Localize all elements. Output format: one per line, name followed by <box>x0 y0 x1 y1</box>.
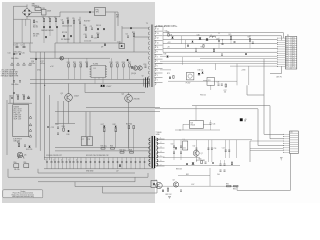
resistor R23 <box>86 64 88 67</box>
bottom caps row A <box>46 161 48 163</box>
wire verticals below bridge <box>21 19 23 43</box>
resistor R24 <box>111 64 113 67</box>
wire vertical x115 <box>114 12 116 41</box>
resistor R30 <box>17 96 19 99</box>
resistor R40 <box>63 128 65 131</box>
svg-text:R86: R86 <box>233 189 236 191</box>
wire 3.3V y66.1 <box>230 65 278 67</box>
capacitor C14 left <box>13 53 15 55</box>
capacitor C20 <box>11 97 13 99</box>
wire drops mid-lower <box>103 131 105 148</box>
wire stby row y81 <box>168 80 237 82</box>
resistor R9 <box>85 27 87 30</box>
svg-text:F1 5A: F1 5A <box>35 5 41 8</box>
svg-text:+5V +12V OUTPUT: +5V +12V OUTPUT <box>1 69 16 71</box>
svg-text:R9: R9 <box>84 25 86 27</box>
ground sym P2 <box>280 158 283 160</box>
thermistor circle TH2 <box>60 56 64 60</box>
wire y103 left <box>10 102 29 104</box>
TL431 box U3 <box>207 78 215 86</box>
svg-text:D3 D4: D3 D4 <box>96 25 101 27</box>
wires into P2 <box>250 140 284 142</box>
base drive caps C9 <box>57 126 59 128</box>
svg-text:R45 deg: R45 deg <box>101 146 107 148</box>
svg-text:R11: R11 <box>132 32 135 34</box>
svg-text:R31: R31 <box>22 94 25 96</box>
wire h-rail y107 <box>86 107 160 109</box>
svg-text:1n 1n 220: 1n 1n 220 <box>84 40 91 42</box>
junction dot IC3 <box>179 129 180 130</box>
svg-text:C2: C2 <box>21 45 23 47</box>
warning triangle E2 <box>17 63 20 65</box>
supervisor IC U2 LM339 block <box>13 105 29 137</box>
resistor R46 <box>111 148 115 150</box>
resistor R51 <box>24 164 29 168</box>
svg-text:D9: D9 <box>101 47 103 49</box>
resistor R50 <box>14 164 19 168</box>
opto coupler PC1 box <box>186 72 194 80</box>
inductor box L3 <box>183 141 188 150</box>
resistor R27 <box>129 64 131 67</box>
svg-text:LOW ESR 1200uF 16V: LOW ESR 1200uF 16V <box>1 72 19 74</box>
wire TL494 verticals <box>68 58 70 64</box>
resistor R3 <box>55 19 57 22</box>
diode D11 <box>130 27 132 29</box>
wire secondary bus y35.8 <box>163 36 282 41</box>
warning triangle A <box>29 116 32 118</box>
wire rail y79 <box>30 78 150 80</box>
wire 5VSB y63.5 <box>155 63 278 65</box>
wire rail x40 <box>39 52 41 151</box>
capacitor C11 <box>91 35 93 37</box>
wire PW-OK y58.7 <box>200 58 278 60</box>
svg-text:C6: C6 <box>126 33 128 35</box>
svg-text:1N4148 1N4148: 1N4148 1N4148 <box>41 30 53 32</box>
svg-text:T2: T2 <box>142 76 144 78</box>
svg-text:R4 1M: R4 1M <box>33 27 38 29</box>
wire y186.2 long <box>155 185 237 187</box>
rectifier diode D32 dark <box>206 39 208 41</box>
transistor Q7 <box>193 150 199 156</box>
wire AC left rail <box>13 6 15 104</box>
svg-text:Q2: Q2 <box>122 94 124 96</box>
svg-text:D16: D16 <box>67 134 70 136</box>
svg-text:C1: C1 <box>14 45 16 47</box>
wire doubler <box>16 43 18 47</box>
svg-text:C46: C46 <box>217 81 220 83</box>
svg-text:R85: R85 <box>226 183 229 185</box>
wire IC3 input from top <box>195 106 197 121</box>
wire secondary bus y32.7 <box>163 33 284 38</box>
svg-text:R16 R17: R16 R17 <box>84 21 90 23</box>
svg-text:R22: R22 <box>79 62 82 64</box>
svg-text:C8 1n: C8 1n <box>33 36 38 38</box>
wire rail y58 <box>30 57 110 59</box>
svg-text:470u: 470u <box>41 63 45 65</box>
svg-text:2SC945: 2SC945 <box>134 99 140 101</box>
diode at rail x36 top <box>35 58 37 60</box>
wire stub U3 <box>210 85 212 90</box>
snubber at T1 bottom <box>151 181 157 188</box>
svg-text:+5 SB: +5 SB <box>241 70 245 72</box>
svg-text:R73: R73 <box>167 73 170 75</box>
wire pwr corner below P1 <box>270 66 282 73</box>
wire long y108.8 <box>155 109 284 146</box>
wire secondary bus y43.6 <box>163 43 278 45</box>
capacitor C19 left pair <box>13 80 15 82</box>
svg-text:C7: C7 <box>82 139 84 141</box>
svg-text:C25 D20 C26 R55 C27: C25 D20 C26 R55 C27 <box>46 155 62 157</box>
connector P2 <box>290 131 299 154</box>
svg-text:L2: L2 <box>210 35 212 37</box>
svg-text:3: 3 <box>157 75 158 77</box>
warning triangle E1 <box>11 63 14 65</box>
svg-text:R2: R2 <box>48 17 50 19</box>
svg-text:A TK3 LE5030 CPU+: A TK3 LE5030 CPU+ <box>156 25 179 28</box>
capacitor CX1 <box>42 10 47 16</box>
resistor R11 <box>133 34 135 37</box>
resistor R31 <box>23 96 25 99</box>
svg-text:R42: R42 <box>113 124 116 126</box>
svg-text:R48: R48 <box>129 150 132 152</box>
wire secondary bus y52.2 <box>163 51 278 53</box>
warning triangle G <box>27 96 30 98</box>
svg-text:C52: C52 <box>193 145 196 147</box>
svg-text:2W: 2W <box>116 17 119 19</box>
svg-text:10: 10 <box>157 42 159 44</box>
resistor R20 <box>68 64 70 67</box>
wire sec bottom rail <box>155 165 240 167</box>
svg-text:R30: R30 <box>16 94 19 96</box>
svg-text:C40: C40 <box>216 39 219 41</box>
capacitor C41 <box>222 43 224 45</box>
resistor R26 <box>123 64 125 67</box>
svg-text:R26: R26 <box>122 62 125 64</box>
svg-text:GND GND: GND GND <box>86 170 94 172</box>
svg-text:C14: C14 <box>8 52 11 54</box>
output caps group2 <box>195 140 197 162</box>
diode D4 <box>63 35 65 37</box>
svg-text:R21: R21 <box>73 62 76 64</box>
svg-text:Q8: Q8 <box>155 180 157 182</box>
wire AC top link <box>14 5 28 7</box>
wire secondary bus y39.7 <box>163 39 278 41</box>
svg-text:C8: C8 <box>88 139 90 141</box>
svg-text:TL494: TL494 <box>93 64 98 66</box>
svg-text:C15: C15 <box>22 52 25 54</box>
svg-text:R83 C63: R83 C63 <box>176 169 182 171</box>
diode D22 dark <box>119 165 121 167</box>
wire loop 5 <box>103 188 158 194</box>
resistor R22 <box>80 64 82 67</box>
diode D7 <box>97 28 99 30</box>
wire vx236 <box>236 140 238 158</box>
parts x231 x234 <box>230 37 231 40</box>
warning triangle E4 <box>29 63 32 65</box>
wire supervisor top <box>8 102 32 104</box>
svg-text:C51: C51 <box>183 147 186 149</box>
svg-text:6: 6 <box>157 66 158 68</box>
parts cluster left stby <box>169 77 171 79</box>
svg-text:470u: 470u <box>31 63 35 65</box>
svg-text:D34 Q11: D34 Q11 <box>198 70 204 72</box>
wire top rail <box>27 16 60 18</box>
wire corner left of P2 <box>249 141 251 162</box>
driver transformer T2 <box>144 77 149 87</box>
diode D12b dark <box>131 66 133 68</box>
parts x250 <box>249 39 250 42</box>
T1 secondary pins <box>155 26 163 28</box>
svg-text:Q9: Q9 <box>173 180 175 182</box>
diode D15 <box>29 146 31 148</box>
svg-text:D17: D17 <box>101 124 104 126</box>
svg-text:P2: P2 <box>291 132 293 134</box>
capacitor C10 <box>85 35 87 37</box>
svg-text:R87 C62: R87 C62 <box>166 194 172 196</box>
svg-text:R23: R23 <box>85 62 88 64</box>
svg-text:C5027: C5027 <box>106 86 111 88</box>
svg-text:R76 10k: R76 10k <box>200 94 206 96</box>
svg-text:D33: D33 <box>164 54 167 56</box>
svg-text:100k 2u2 47k: 100k 2u2 47k <box>62 26 72 28</box>
diode D16 <box>68 130 70 132</box>
resistor R45 <box>101 148 105 150</box>
PWM IC U1 TL494 <box>91 65 106 77</box>
parts on rail y165 <box>212 162 214 164</box>
warning triangle B <box>29 124 32 126</box>
parts on y52 <box>221 53 223 55</box>
svg-text:D15 C24: D15 C24 <box>26 149 32 151</box>
wire drop x248 <box>248 66 250 85</box>
IC3 pins <box>183 123 189 125</box>
wire loop 2 <box>8 169 148 177</box>
svg-text:5: 5 <box>157 70 158 72</box>
diode D9 on rail <box>104 44 106 46</box>
parts at 201 163 <box>201 161 203 164</box>
wire h-rail y111 <box>55 111 160 113</box>
svg-text:R3: R3 <box>54 17 56 19</box>
resistor R47 <box>120 152 124 154</box>
wire bottom rail y168 <box>44 168 155 170</box>
wire transformer top links <box>122 27 149 29</box>
wire tap verticals <box>162 27 164 53</box>
wire thermistor feed <box>60 11 95 13</box>
svg-text:C9: C9 <box>55 124 57 126</box>
wire y157.5 sec <box>163 157 200 159</box>
capacitor C6 <box>127 35 129 37</box>
schottky D31 <box>171 37 173 39</box>
filter capacitor C1 <box>16 46 19 48</box>
diode D1 <box>43 26 45 28</box>
output caps group1 <box>173 140 175 160</box>
thermistor box TH1 <box>95 8 106 16</box>
svg-text:U1: U1 <box>94 68 96 70</box>
filter capacitor C2 <box>23 46 26 48</box>
svg-text:L3: L3 <box>183 139 185 141</box>
inductor L2 <box>210 36 216 38</box>
wire rail x44 <box>44 52 46 160</box>
svg-text:C3: C3 <box>61 20 63 22</box>
wire y151 rail <box>55 150 150 152</box>
wire resistor drops <box>43 22 45 27</box>
svg-text:C18: C18 <box>143 64 146 66</box>
svg-text:R47 deg: R47 deg <box>120 150 126 152</box>
startup resistor R5 <box>73 20 75 23</box>
diode D2 <box>49 26 51 28</box>
wire rail y83 <box>30 83 150 85</box>
svg-text:+5V: +5V <box>167 46 170 48</box>
capacitor C4 <box>79 21 81 23</box>
dark pad 5VSB <box>240 118 243 121</box>
primary-side shaded region <box>2 2 155 203</box>
P1 pin boxes <box>286 37 288 38</box>
caps C60 group <box>220 163 222 165</box>
svg-text:10k 10k: 10k 10k <box>14 169 20 171</box>
svg-text:D5 1N4148: D5 1N4148 <box>61 39 70 41</box>
svg-text:Q1: Q1 <box>61 93 63 95</box>
svg-text:R72: R72 <box>201 47 204 49</box>
capacitor C21 <box>28 97 30 99</box>
svg-text:C5027: C5027 <box>74 96 79 98</box>
svg-text:PC817: PC817 <box>186 83 191 85</box>
svg-text:Q5: Q5 <box>24 155 26 157</box>
resistor R18 <box>97 35 99 38</box>
wire bridge stubs <box>26 5 28 9</box>
bridge rectifier BR1 <box>22 8 32 17</box>
wire loop 4 <box>75 186 151 188</box>
parts under y186 <box>167 188 169 191</box>
wire supervisor rail x49 <box>49 95 51 160</box>
wire drop x215 to standby <box>215 64 217 71</box>
svg-text:R77: R77 <box>224 90 227 92</box>
wire base drive <box>57 101 59 125</box>
wire bottom right loop <box>237 154 291 191</box>
diode D3 <box>56 26 58 28</box>
svg-text:CX1: CX1 <box>42 8 45 10</box>
svg-text:+5V: +5V <box>244 119 247 121</box>
svg-text:R71: R71 <box>248 36 251 38</box>
output caps group3 <box>225 140 227 158</box>
transistor Q5 <box>17 152 23 158</box>
standby transformer T3 core <box>152 136 154 168</box>
resistor R33 <box>18 144 20 147</box>
wire y92 rail <box>85 92 145 94</box>
transistor Q3 <box>133 66 137 70</box>
svg-text:Q3 Q4: Q3 Q4 <box>131 73 136 75</box>
svg-text:D31: D31 <box>170 34 173 36</box>
svg-text:Q7: Q7 <box>201 153 203 155</box>
svg-text:5VSB: 5VSB <box>156 134 160 136</box>
svg-text:D29: D29 <box>165 30 168 32</box>
junction dots bus <box>218 32 221 35</box>
svg-text:T1: T1 <box>146 23 148 25</box>
connector P1 <box>285 37 297 70</box>
wire y147 rail <box>55 147 150 149</box>
junction dot rails <box>44 85 45 86</box>
svg-text:D21 D22 C30 C31 R60 R61: D21 D22 C30 C31 R60 R61 C32 <box>86 155 109 157</box>
svg-text:R18: R18 <box>96 33 99 35</box>
svg-text:R24: R24 <box>110 62 113 64</box>
wire secondary bus y48.3 <box>163 47 278 49</box>
transistor Q4 <box>138 66 142 70</box>
resistor R72 <box>203 45 204 48</box>
svg-text:1: 1 <box>157 80 158 82</box>
wire left drops <box>29 43 31 52</box>
capacitor C22 <box>24 144 26 146</box>
svg-text:R7 R8: R7 R8 <box>62 32 67 34</box>
svg-text:R50: R50 <box>14 162 17 164</box>
svg-text:R33: R33 <box>17 142 20 144</box>
svg-text:P1: P1 <box>287 35 289 37</box>
svg-text:330u 330u: 330u 330u <box>11 58 18 60</box>
transistor Q1 power <box>65 94 73 102</box>
resistor R85 <box>227 185 232 187</box>
resistor R68 sec <box>168 34 169 37</box>
svg-text:11: 11 <box>157 47 159 49</box>
svg-text:10k: 10k <box>224 92 227 94</box>
resistors R43 R44 <box>128 126 130 129</box>
wire stby row y70 <box>160 69 171 71</box>
wire long y105.7 <box>192 106 284 139</box>
resistor R77 <box>225 84 226 87</box>
diode D38 <box>192 41 194 42</box>
svg-text:D10: D10 <box>118 42 121 44</box>
main transformer T1 core <box>151 25 153 88</box>
wire stby vertical x264 to P2 <box>264 59 284 135</box>
svg-text:R82: R82 <box>186 174 189 176</box>
IC3 78L05 box <box>189 121 203 129</box>
warning triangle D <box>29 135 32 137</box>
wire stby lower <box>175 129 220 131</box>
svg-text:C2 1n: C2 1n <box>33 25 37 27</box>
svg-text:R4: R4 <box>66 18 68 20</box>
svg-text:C5: C5 <box>90 26 92 28</box>
resistor R2 <box>49 19 51 22</box>
transistor Q8 <box>156 182 162 188</box>
warning triangle E3 <box>23 63 26 65</box>
svg-text:9: 9 <box>157 52 158 54</box>
svg-text:C11: C11 <box>94 37 97 39</box>
wire bottom rail y157 <box>44 157 155 159</box>
resistor R1 <box>43 19 45 22</box>
wire startup verticals <box>67 17 69 43</box>
resistor R42 cluster <box>115 126 117 128</box>
capacitor C40 <box>218 40 220 42</box>
diode D5 <box>70 35 72 37</box>
svg-text:SB: SB <box>244 121 246 123</box>
capacitor C5 <box>91 27 93 29</box>
warning triangle C <box>29 129 32 131</box>
diode D34 dark <box>198 73 200 75</box>
wire y175.7 <box>178 175 210 177</box>
diode D6b <box>45 36 47 38</box>
T3 windings <box>149 138 151 141</box>
diode D13 dark pair <box>100 85 102 87</box>
svg-text:D30: D30 <box>197 35 200 37</box>
wire corner x247 <box>247 85 264 95</box>
wire rail x36 <box>35 52 37 148</box>
svg-text:R46: R46 <box>110 146 113 148</box>
diode D36 dark <box>175 147 177 149</box>
svg-text:R1: R1 <box>42 17 44 19</box>
svg-text:R51: R51 <box>24 162 27 164</box>
wire h-rail y43 <box>55 42 122 44</box>
svg-text:R5: R5 <box>72 18 74 20</box>
svg-text:R20: R20 <box>67 62 70 64</box>
rectifier diode D30 dark <box>199 38 202 40</box>
svg-text:SCP 1.1V: SCP 1.1V <box>14 119 22 121</box>
resistor R hold <box>33 20 34 23</box>
